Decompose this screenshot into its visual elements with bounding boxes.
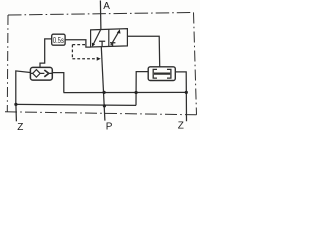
svg-text:Z: Z: [178, 121, 184, 131]
wire Z left stub: [15, 104, 18, 121]
wire bottom bus: [64, 91, 187, 93]
pilot line dashed vertical: [71, 45, 73, 59]
wire timer output to valve pilot corner: [65, 40, 91, 47]
timer T1 body: [52, 34, 65, 45]
pilot line dashed lower to P: [72, 58, 96, 60]
wire supply pipe: [16, 104, 136, 105]
junction dot bus-riser: [135, 91, 138, 94]
junction dot bus-P: [103, 91, 106, 94]
check valve CV1 through line: [30, 72, 52, 74]
valve V1 left cell flow path: [93, 29, 101, 45]
wire check valve top jog to timer: [40, 39, 52, 68]
enclosure boundary dash-dot left: [6, 15, 9, 112]
pilot line dashed horizontal upper: [72, 44, 86, 46]
check valve CV1 diamond: [33, 70, 40, 78]
wire check valve output step: [52, 73, 64, 93]
restrictor FR1 center bar: [154, 72, 170, 74]
junction dot pipe-P: [103, 104, 106, 107]
svg-text:0.5s: 0.5s: [53, 35, 64, 45]
svg-text:Z: Z: [17, 122, 23, 130]
restrictor FR1 body: [148, 67, 175, 81]
wire P line vertical: [101, 47, 105, 121]
valve V1 right cell blocked port T: [110, 43, 115, 47]
valve V1 left cell blocked port T: [99, 41, 105, 47]
restrictor FR1 right bracket: [167, 69, 171, 78]
wire restrictor right port to Z right: [175, 72, 186, 121]
check valve CV1 body: [30, 67, 52, 80]
enclosure boundary dash-dot top: [8, 13, 194, 16]
enclosure boundary dash-dot bottom: [5, 112, 197, 115]
svg-text:P: P: [106, 121, 113, 130]
junction dot bus-Z right: [185, 91, 188, 94]
check valve CV1 arrow: [44, 70, 48, 77]
valve V1 divider: [108, 29, 110, 46]
junction dot pipe-Z left: [14, 103, 17, 106]
pilot line arrowhead: [97, 57, 101, 61]
wire port A vertical: [99, 1, 102, 30]
wire left riser: [16, 71, 31, 105]
wire restrictor left port: [136, 72, 148, 106]
wire valve right output to restrictor: [127, 36, 159, 67]
valve V1 left cell arrowhead: [92, 43, 95, 47]
enclosure boundary dash-dot right: [194, 13, 197, 115]
restrictor FR1 left bracket: [153, 69, 157, 78]
svg-text:A: A: [103, 1, 110, 12]
valve V1 body: [91, 29, 128, 47]
valve V1 right cell arrowhead: [117, 29, 121, 33]
valve V1 right cell flow path: [111, 31, 119, 45]
